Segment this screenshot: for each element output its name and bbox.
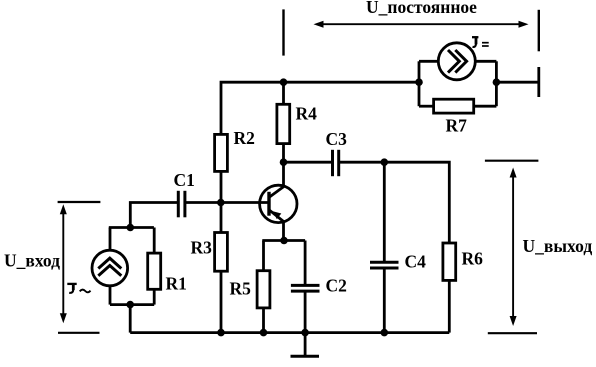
svg-text:R7: R7 xyxy=(446,116,468,136)
node: emitter / R5 / C2 junction xyxy=(280,237,288,245)
svg-text:R6: R6 xyxy=(462,249,484,269)
node: C4 / bottom rail xyxy=(381,329,389,337)
wire: J= box top left segment xyxy=(419,60,438,63)
wire: R1 top lead xyxy=(153,228,156,254)
svg-text:C1: C1 xyxy=(174,170,195,190)
svg-text:R3: R3 xyxy=(191,238,213,258)
svg-text:C4: C4 xyxy=(405,252,427,272)
wire: bottom rail xyxy=(130,331,449,334)
wire: base wire from C1 to transistor xyxy=(186,201,268,204)
node: J= box right junction xyxy=(493,78,501,86)
label J~ xyxy=(67,283,90,293)
tick: U_постоянное right boundary bar xyxy=(538,10,540,52)
wire: R3 branch xyxy=(220,203,223,333)
svg-text:U_вход: U_вход xyxy=(4,251,60,271)
node: base / R2 / R3 junction xyxy=(217,199,225,207)
wire: C3 left lead xyxy=(284,161,332,164)
wire: J= box bottom left segment xyxy=(419,105,434,108)
svg-text:R2: R2 xyxy=(234,128,255,148)
current source J= xyxy=(438,43,475,80)
tick: U_выход bottom xyxy=(488,332,537,334)
wire: C2 top lead xyxy=(304,241,307,286)
wire: C2 bottom lead xyxy=(304,291,307,333)
capacitor C3 xyxy=(333,150,339,176)
wire: loop feed down to bottom rail xyxy=(129,305,132,333)
svg-text:U_выход: U_выход xyxy=(523,236,593,256)
wire: C3 right lead to output node xyxy=(340,161,385,164)
node: R5 / bottom rail xyxy=(260,329,268,337)
wire: J= box right vertical xyxy=(495,61,498,106)
wire: R5 bottom lead xyxy=(262,308,265,333)
wire: J~ top lead xyxy=(109,228,112,251)
resistor R7 xyxy=(434,99,474,113)
wire: collector lead up to R4 node xyxy=(282,162,285,186)
wire: J~ bottom lead xyxy=(109,286,112,305)
wire: J= box left vertical xyxy=(418,61,421,106)
wire: C4 branch top lead xyxy=(383,162,386,262)
resistor R5 xyxy=(257,271,270,308)
wire: top rail from R2 corner to J= box xyxy=(221,82,419,203)
capacitor C2 xyxy=(291,285,320,291)
node: R3 / bottom rail xyxy=(217,329,225,337)
transistor Q1 (PNP) xyxy=(260,185,297,222)
wire: R5/C2 parallel top bar xyxy=(262,239,305,242)
wire: R6 bottom lead to rail corner xyxy=(448,280,451,332)
svg-text:R1: R1 xyxy=(166,274,187,294)
svg-text:R4: R4 xyxy=(296,104,318,124)
wire: C4 bottom lead xyxy=(383,268,386,333)
current source J~ xyxy=(92,250,128,286)
terminal: DC output bar xyxy=(537,67,540,97)
label J= xyxy=(472,36,489,47)
node: output node (C3/C4/R6) xyxy=(381,158,389,166)
svg-text:R5: R5 xyxy=(230,279,252,299)
capacitor C4 xyxy=(370,262,399,268)
node: J= box left junction xyxy=(415,78,423,86)
resistor R1 xyxy=(148,253,161,289)
tick: U_вход bottom xyxy=(58,332,100,334)
svg-text:C2: C2 xyxy=(326,276,347,296)
svg-text:C3: C3 xyxy=(326,129,348,149)
measurement arrow U_постоянное xyxy=(314,21,529,28)
wire: output node to R6 branch xyxy=(384,162,449,243)
ground xyxy=(291,333,320,357)
wire: J= box to output terminal xyxy=(496,81,538,84)
wire: input wire from source loop to C1 xyxy=(130,203,177,228)
resistor R4 xyxy=(277,104,290,143)
node: loop top junction xyxy=(127,224,135,232)
wire: R1 bottom lead xyxy=(153,289,156,304)
tick: U_постоянное left boundary bar xyxy=(282,9,284,55)
wire: source loop bottom bar xyxy=(110,303,154,306)
wire: source loop top bar xyxy=(109,226,154,229)
node: top rail / R4 junction xyxy=(280,78,288,86)
wire: J= box top right segment xyxy=(475,60,496,63)
resistor R6 xyxy=(443,243,456,280)
measurement arrow U_вход xyxy=(60,204,67,323)
node: R4 / C3 / collector junction xyxy=(280,158,288,166)
node: C2 / ground / bottom rail xyxy=(301,329,309,337)
capacitor C1 xyxy=(178,191,185,218)
wire: emitter lead down to R5/C2 bar xyxy=(282,222,285,241)
node: loop bottom junction xyxy=(126,301,134,309)
wire: J= box bottom right segment xyxy=(474,105,497,108)
tick: U_выход top xyxy=(485,160,539,162)
resistor R2 xyxy=(215,134,228,171)
tick: U_вход top xyxy=(58,201,101,203)
measurement arrow U_выход xyxy=(510,168,517,327)
svg-text:U_постоянное: U_постоянное xyxy=(366,0,477,17)
wire: R5 top lead xyxy=(262,241,265,271)
wire: R4 branch collector feed xyxy=(282,82,285,162)
resistor R3 xyxy=(215,233,228,272)
